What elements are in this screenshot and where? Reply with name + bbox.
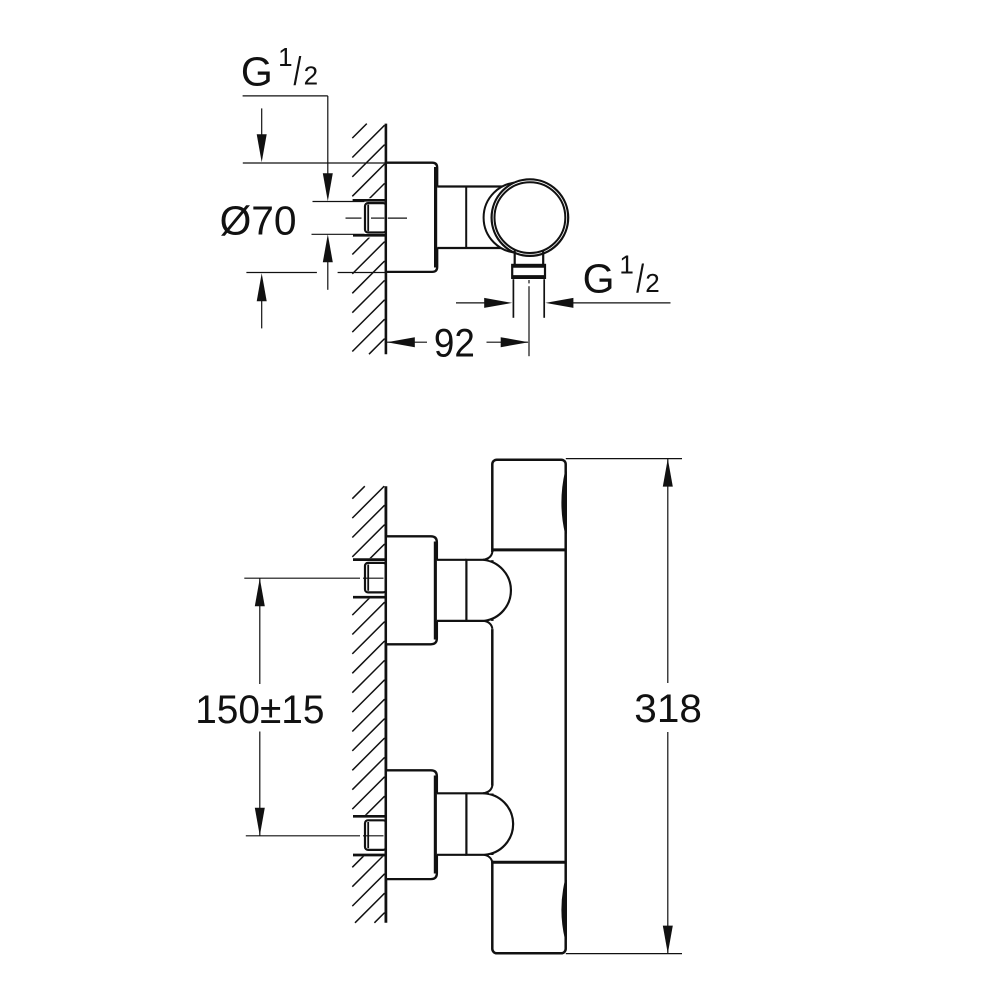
center line (side view) [346,217,385,219]
dimension Ø70: arrow stems [261,108,263,136]
label G 1/2 right [583,250,660,302]
svg-text:150±15: 150±15 [195,688,324,732]
label G 1/2 top-left [241,42,318,95]
outlet center line [528,280,530,356]
wall hatching (front view) [352,486,384,923]
dimension 92: line [387,341,428,343]
top cap joint line [492,548,565,551]
svg-text:Ø70: Ø70 [220,198,297,244]
handle knob outer circle [492,179,569,256]
svg-text:G: G [583,256,615,302]
dimension arrows (lower view) [255,578,265,606]
dimension G1/2 top-left: leader line [243,95,328,97]
svg-text:318: 318 [634,687,702,731]
top cap shading arc [562,472,566,534]
dimension 150±15: line [259,578,261,684]
lower threaded nipple (front view) [365,820,386,850]
dimension 318: line [667,459,669,683]
outlet shank below knob [514,251,516,265]
upper union fillets into body [483,552,492,560]
wall flange escutcheon (side view) [386,163,437,272]
upper threaded nipple (front view) [365,563,386,593]
dimension Ø70: extension lines [243,162,385,164]
center line upper union [363,577,384,579]
upper union escutcheon [386,536,437,644]
lower union fillets into body [483,785,492,793]
dimension G1/2 top-left: extension lines [313,201,365,203]
svg-text:1: 1 [619,250,633,280]
svg-text:2: 2 [645,268,659,298]
lower union escutcheon [386,770,437,879]
svg-text:92: 92 [434,321,475,365]
upper supply pipe in wall (front view) [351,558,386,598]
dimension 150±15: extension lines [244,577,360,579]
dimension G1/2 right: line [456,302,490,304]
handle knob inner circle [495,182,566,253]
dimension arrows (upper view) [323,173,333,201]
svg-text:/: / [636,258,644,302]
supply pipe in wall (side view) [351,198,386,237]
upper union nut with dome [466,560,511,621]
svg-text:/: / [294,50,302,94]
wall surface line (front view) [384,486,387,923]
lower union nut with dome [466,793,513,855]
mixer body vertical bar [492,460,565,954]
lower union shank [437,793,467,855]
wall surface line (side view) [385,124,388,355]
bottom cap shading arc [562,880,566,940]
center line lower union [363,835,384,837]
outlet collar nut [512,265,545,278]
bottom cap joint line [492,861,565,864]
lower supply pipe in wall (front view) [351,815,386,857]
center line inside flange [388,217,407,219]
thread extension lines [512,279,514,318]
svg-text:1: 1 [278,42,292,72]
bonnet circle behind handle [484,182,554,252]
svg-text:G: G [241,48,273,94]
dimension 318: extension lines [566,458,682,460]
svg-text:2: 2 [304,61,318,91]
upper union shank [437,560,467,621]
wall hatching (side view) [352,124,384,355]
valve body cylinder (side view) [437,187,508,249]
threaded nipple G1/2 (side view) [365,203,386,232]
